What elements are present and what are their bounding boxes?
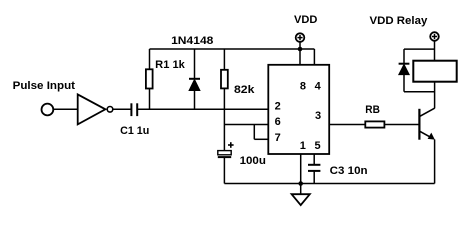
wire jog to pin 7 <box>254 125 268 140</box>
svg-text:1N4148: 1N4148 <box>171 35 213 47</box>
svg-text:4: 4 <box>315 80 322 92</box>
wire bubble to C1 <box>113 108 131 110</box>
svg-text:RB: RB <box>365 104 380 116</box>
VDD supply symbol <box>296 33 305 49</box>
wire pin 3 to RB <box>329 124 365 126</box>
wire C1 to pin 2 <box>137 108 268 110</box>
wire diode bottom to collector node <box>404 91 435 93</box>
svg-text:C1 1u: C1 1u <box>120 125 149 137</box>
relay coil K1 <box>413 61 456 82</box>
resistor RB <box>365 121 384 127</box>
resistor R2 82k <box>221 49 228 151</box>
wire pin 1 to ground rail <box>300 154 302 184</box>
transistor Q1 <box>419 108 434 140</box>
inverter output bubble <box>107 107 113 113</box>
svg-text:VDD Relay: VDD Relay <box>370 15 429 27</box>
svg-text:82k: 82k <box>234 84 255 96</box>
bottom ground rail <box>224 183 434 185</box>
svg-text:R1 1k: R1 1k <box>155 59 185 71</box>
wire collector up to relay <box>434 82 436 109</box>
svg-text:2: 2 <box>275 100 281 112</box>
wire input to inverter <box>54 108 78 110</box>
svg-text:7: 7 <box>275 132 281 144</box>
flyback diode D2 <box>399 64 410 92</box>
wire pin 8 <box>299 49 301 65</box>
svg-text:3: 3 <box>315 110 321 122</box>
svg-text:100u: 100u <box>240 155 266 167</box>
resistor R1 <box>146 49 153 109</box>
wire pin 4 <box>313 49 315 65</box>
capacitor C2 100u polarized <box>218 151 231 184</box>
svg-text:C3 10n: C3 10n <box>330 165 368 177</box>
wire emitter down to rail <box>434 140 436 184</box>
wire branch to flyback diode top <box>404 49 435 64</box>
svg-text:Pulse Input: Pulse Input <box>13 80 76 92</box>
svg-text:6: 6 <box>275 116 281 128</box>
input terminal circle <box>42 104 54 116</box>
wire RB to base <box>384 124 419 126</box>
capacitor C1 <box>131 103 137 116</box>
wire node 6/7 to pin 6 <box>224 124 268 126</box>
ground symbol <box>292 184 310 206</box>
VDD relay supply symbol <box>430 32 439 61</box>
plus sign of 100u <box>228 142 234 148</box>
diode D1 1N4148 <box>189 49 200 109</box>
junction dot VDD rail <box>298 47 303 52</box>
junction dot ground rail <box>298 181 303 186</box>
svg-text:VDD: VDD <box>294 14 317 26</box>
top rail VDD <box>150 48 315 50</box>
inverter U2 triangle <box>78 94 106 124</box>
op-amp U1 555 timer box <box>268 65 329 154</box>
capacitor C3 <box>308 154 320 184</box>
svg-text:8: 8 <box>300 80 306 92</box>
svg-text:5: 5 <box>314 140 320 152</box>
svg-text:1: 1 <box>300 140 306 152</box>
